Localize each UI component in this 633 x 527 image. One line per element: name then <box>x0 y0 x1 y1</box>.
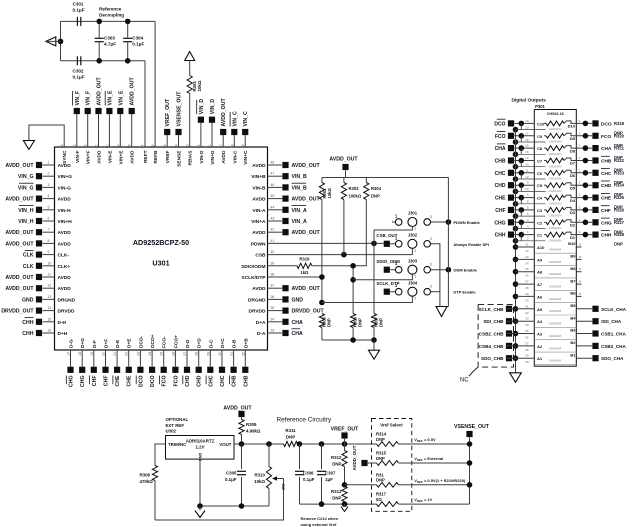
svg-text:C3: C3 <box>537 208 543 213</box>
svg-text:B5: B5 <box>570 303 576 308</box>
svg-text:VOUT: VOUT <box>219 442 232 447</box>
svg-text:C2: C2 <box>537 220 543 225</box>
svg-text:3: 3 <box>430 263 432 267</box>
wire pin 53 RBIAS <box>186 144 194 165</box>
svg-text:A7: A7 <box>537 282 543 287</box>
wire P301 row A2 <box>513 340 577 352</box>
wire P301 row A4 <box>513 315 577 327</box>
svg-text:40: 40 <box>271 250 275 254</box>
svg-text:B: B <box>579 280 581 284</box>
node DRVDD_OUT pin 35 <box>249 306 325 315</box>
svg-text:DNP: DNP <box>376 456 385 461</box>
node VIN_D pin 51 <box>208 99 216 165</box>
svg-text:57: 57 <box>141 144 145 148</box>
svg-text:CHC: CHC <box>601 171 612 177</box>
wire REFB drop <box>154 21 156 147</box>
svg-text:58: 58 <box>128 144 132 148</box>
svg-text:AVDD_OUT: AVDD_OUT <box>5 197 34 203</box>
svg-text:CHG: CHG <box>601 220 612 226</box>
svg-text:4.99kΩ: 4.99kΩ <box>246 429 261 434</box>
svg-text:0.1μF: 0.1μF <box>73 8 85 13</box>
svg-text:A3: A3 <box>537 332 543 337</box>
wire J302-2 elbow <box>411 249 413 255</box>
wire stub B6 <box>576 292 581 297</box>
svg-text:D+B: D+B <box>243 338 249 348</box>
svg-text:CHA: CHA <box>292 320 303 326</box>
svg-text:C303: C303 <box>104 36 115 41</box>
label R321 DNP <box>614 146 625 161</box>
node AVDD_OUT pin 50 <box>219 98 227 164</box>
svg-text:CHSAGN: CHSAGN <box>549 189 562 193</box>
svg-text:25: 25 <box>160 352 164 356</box>
svg-text:3: 3 <box>430 285 432 289</box>
svg-text:59: 59 <box>116 144 120 148</box>
svg-text:1.2V: 1.2V <box>195 445 204 450</box>
ground <box>341 504 348 511</box>
IC U301 AD9252BCPZ-50 <box>55 147 268 350</box>
svg-text:1kΩ: 1kΩ <box>300 270 309 275</box>
svg-text:100kΩ: 100kΩ <box>349 194 362 199</box>
svg-text:VIN_D: VIN_D <box>199 99 205 115</box>
label OPTIONAL EXT REF <box>166 417 189 428</box>
svg-text:VIN+E: VIN+E <box>118 150 124 165</box>
wire stub B10 <box>576 243 581 248</box>
wire J303-2 elbow <box>353 275 412 280</box>
node DCO- pin 23 <box>136 335 144 387</box>
wire column R304 elbow <box>353 200 366 266</box>
svg-text:VIN_E: VIN_E <box>107 90 113 106</box>
wire TRIM loop <box>155 444 166 466</box>
svg-text:54: 54 <box>175 144 179 148</box>
jumper J301 <box>392 211 432 231</box>
svg-text:55: 55 <box>163 144 167 148</box>
svg-text:36: 36 <box>271 295 275 299</box>
svg-text:CLK+: CLK+ <box>58 264 71 270</box>
svg-text:C6: C6 <box>537 171 543 176</box>
svg-text:C301: C301 <box>73 2 84 7</box>
svg-text:44: 44 <box>271 205 275 209</box>
wire pin 41 PDWN <box>251 239 275 248</box>
svg-text:R319: R319 <box>299 257 310 262</box>
node VREF_OUT pin 55 <box>163 98 171 163</box>
svg-text:CHSAGN: CHSAGN <box>549 127 562 131</box>
svg-text:GND: GND <box>292 297 304 303</box>
node CHF- pin 19 <box>90 340 98 386</box>
node AVDD_OUT pin 7 <box>5 228 71 237</box>
svg-text:D+D: D+D <box>197 338 203 348</box>
node CHE- pin 21 <box>113 339 121 387</box>
svg-text:AVDD: AVDD <box>58 230 72 236</box>
svg-text:2: 2 <box>414 227 416 231</box>
node SDO_CHB <box>481 355 515 361</box>
svg-text:38: 38 <box>271 273 275 277</box>
svg-text:21: 21 <box>525 243 529 247</box>
label VREF=External <box>414 456 443 462</box>
wire stub B9 <box>576 255 581 260</box>
svg-text:VIN+G: VIN+G <box>58 174 73 180</box>
svg-text:VIN_F: VIN_F <box>86 91 92 106</box>
svg-text:D+A: D+A <box>256 320 266 326</box>
svg-text:CHF: CHF <box>601 208 611 214</box>
svg-text:AVDD: AVDD <box>221 150 227 164</box>
svg-text:27: 27 <box>525 280 529 284</box>
svg-text:VIN_H: VIN_H <box>18 208 34 214</box>
svg-text:10: 10 <box>525 187 529 191</box>
svg-text:AVDD: AVDD <box>58 275 72 281</box>
node CHG- pin 17 <box>66 339 74 387</box>
svg-text:AVDD: AVDD <box>58 286 72 292</box>
svg-text:GNDAIM: GNDAIM <box>549 359 562 363</box>
svg-text:B: B <box>579 255 581 259</box>
svg-text:B: B <box>579 267 581 271</box>
svg-text:GNDAIM: GNDAIM <box>549 322 562 326</box>
node CLK pin 10 <box>23 261 71 270</box>
wire bottom rail <box>61 60 146 62</box>
svg-text:D9: D9 <box>570 136 576 141</box>
svg-text:FCO: FCO <box>162 376 168 387</box>
svg-text:B9: B9 <box>570 254 576 259</box>
svg-text:36: 36 <box>525 336 529 340</box>
label VREF=1V <box>414 497 432 503</box>
svg-text:R328: R328 <box>614 232 625 237</box>
label VREF=0.5V(1+R219/R220) <box>414 478 466 484</box>
svg-text:J301: J301 <box>408 211 418 216</box>
svg-text:10kΩ: 10kΩ <box>197 80 202 91</box>
wire column SDIO <box>350 263 356 314</box>
svg-text:VREF: VREF <box>165 150 171 163</box>
node VIN_E pin 59 <box>116 90 124 165</box>
svg-text:8: 8 <box>48 239 50 243</box>
svg-text:A6: A6 <box>537 294 543 299</box>
svg-text:DNP: DNP <box>376 437 385 442</box>
node VIN_C pin 48 <box>241 111 249 165</box>
svg-text:34: 34 <box>525 323 529 327</box>
svg-text:using external Vref: using external Vref <box>301 522 337 527</box>
label R328 DNP <box>614 232 625 247</box>
jumper J303 <box>376 258 431 278</box>
wire pin 56 REFB <box>151 144 159 163</box>
svg-text:A9: A9 <box>537 257 543 262</box>
svg-text:28: 28 <box>525 286 529 290</box>
svg-text:D1: D1 <box>570 235 576 240</box>
svg-text:VIN-B: VIN-B <box>252 185 266 191</box>
svg-text:DCO+: DCO+ <box>150 334 156 348</box>
node CHA- P301 row <box>495 144 546 158</box>
svg-text:D3: D3 <box>570 210 576 215</box>
node VIN_F pin 62 <box>84 91 92 164</box>
node VIN_H pin 6 <box>18 217 72 226</box>
node AVDD_OUT pin 48 <box>252 161 320 170</box>
svg-text:AVDD: AVDD <box>58 241 72 247</box>
svg-text:CSB1_CHA: CSB1_CHA <box>601 332 626 337</box>
svg-text:CHSAGN: CHSAGN <box>549 238 562 242</box>
wire SCLK row <box>268 276 322 278</box>
svg-text:CHE: CHE <box>127 375 133 386</box>
wire J301-2 elbow <box>374 227 412 230</box>
svg-text:AVDD_OUT: AVDD_OUT <box>292 163 321 169</box>
svg-text:D+E: D+E <box>127 338 133 348</box>
svg-text:37: 37 <box>271 284 275 288</box>
svg-text:2: 2 <box>48 172 50 176</box>
resistor R302 <box>319 178 332 200</box>
svg-text:GNDAIM: GNDAIM <box>549 297 562 301</box>
svg-text:C8: C8 <box>537 146 543 151</box>
svg-text:0.1μF: 0.1μF <box>73 75 85 80</box>
svg-text:DRVDD_OUT: DRVDD_OUT <box>1 309 34 315</box>
node AVDD_OUT pin 61 <box>95 77 103 164</box>
label R326 DNP <box>614 207 625 222</box>
svg-text:DTP Enable: DTP Enable <box>453 290 476 295</box>
svg-text:D+G: D+G <box>80 338 86 348</box>
node VIN_H pin 5 <box>18 205 71 214</box>
svg-text:17: 17 <box>525 131 529 135</box>
node VIN_D pin 52 <box>197 99 205 164</box>
node VSENSE_OUT <box>454 424 490 438</box>
svg-text:DNP: DNP <box>614 242 623 247</box>
capacitor C307 <box>317 444 336 504</box>
node CHD- out <box>576 181 612 190</box>
node DCO+ out <box>576 119 612 128</box>
node VIN_C pin 49 <box>230 111 238 164</box>
jumper J302 <box>376 233 431 253</box>
svg-text:VIN_H: VIN_H <box>18 219 34 225</box>
svg-text:DNP: DNP <box>376 478 385 483</box>
node VIN_G pin 3 <box>18 183 71 192</box>
svg-text:C302: C302 <box>73 69 84 74</box>
wire P301 row A8 <box>513 266 577 278</box>
svg-text:31: 31 <box>525 304 529 308</box>
node SCLK_CHA <box>576 306 626 312</box>
svg-text:R313: R313 <box>331 489 342 494</box>
node CHA pin 34 <box>256 317 303 326</box>
svg-text:B2: B2 <box>570 340 576 345</box>
svg-text:R311: R311 <box>285 428 296 433</box>
svg-text:SDI_CHA: SDI_CHA <box>601 319 622 324</box>
wire pin 40 CSB <box>255 250 274 259</box>
svg-text:PDWN: PDWN <box>251 241 266 247</box>
svg-text:4: 4 <box>48 194 50 198</box>
resistor R303 <box>341 178 362 200</box>
svg-text:DNP: DNP <box>371 194 380 199</box>
svg-text:22: 22 <box>525 249 529 253</box>
node AVDD_OUT <box>223 406 252 420</box>
wire enable rail <box>437 178 449 307</box>
svg-text:B1: B1 <box>570 352 576 357</box>
node AVDD_OUT pin 11 <box>5 273 71 282</box>
svg-text:33: 33 <box>525 317 529 321</box>
node VSENSE_OUT pin 54 <box>175 91 183 167</box>
node AVDD_OUT pin 58 <box>128 77 136 164</box>
resistor R304 <box>364 178 382 200</box>
svg-text:45: 45 <box>271 194 275 198</box>
svg-text:SDI_CHB: SDI_CHB <box>483 319 504 324</box>
svg-text:R312: R312 <box>331 455 342 460</box>
node CHF+ pin 20 <box>102 339 110 386</box>
node CLK pin 9 <box>23 250 70 259</box>
svg-text:51: 51 <box>208 144 212 148</box>
wire VSENSE rail <box>412 438 473 505</box>
svg-text:15: 15 <box>48 317 52 321</box>
svg-text:DRVDD: DRVDD <box>58 309 76 315</box>
svg-text:39: 39 <box>271 261 275 265</box>
wire PDWN row <box>268 241 384 247</box>
wire P301 row A10 <box>513 241 577 253</box>
svg-text:CHG: CHG <box>69 376 75 388</box>
resistor R327 (DNP) <box>537 220 576 230</box>
node CHE+ P301 row <box>495 193 546 207</box>
svg-text:31: 31 <box>230 352 234 356</box>
svg-text:R303: R303 <box>349 186 360 191</box>
svg-text:SCLK/DTP: SCLK/DTP <box>242 275 267 281</box>
wire VOUT row <box>234 441 284 447</box>
svg-text:CHB: CHB <box>243 375 249 386</box>
node CHE- out <box>576 193 612 202</box>
svg-text:37: 37 <box>525 341 529 345</box>
svg-text:D6: D6 <box>570 173 576 178</box>
svg-text:NC: NC <box>460 378 469 384</box>
svg-text:R321: R321 <box>614 146 625 151</box>
ground <box>195 506 205 518</box>
svg-text:AVDD: AVDD <box>252 163 266 169</box>
svg-text:25: 25 <box>525 267 529 271</box>
capacitor C304 <box>123 19 144 64</box>
svg-text:CHSAGN: CHSAGN <box>549 226 562 230</box>
ground <box>369 350 380 359</box>
resistor R325 (DNP) <box>537 195 576 205</box>
node CSB2_CHA <box>576 343 626 349</box>
capacitor C303 <box>95 19 116 64</box>
svg-text:VIN-H: VIN-H <box>58 208 72 214</box>
svg-text:VIN+H: VIN+H <box>58 219 73 225</box>
node CHE+ pin 22 <box>125 338 133 387</box>
svg-text:17: 17 <box>67 352 71 356</box>
svg-text:CSB2_CHA: CSB2_CHA <box>601 344 626 349</box>
svg-text:D2: D2 <box>570 223 576 228</box>
wire J304-3 <box>431 291 440 293</box>
capacitor C301 <box>73 2 85 26</box>
capacitor C302 <box>73 56 85 79</box>
resistor R317 <box>372 492 412 507</box>
resistor R309 <box>239 420 261 445</box>
svg-text:TRIM/NC: TRIM/NC <box>168 442 187 447</box>
svg-text:R327: R327 <box>614 220 625 225</box>
svg-text:13: 13 <box>525 156 529 160</box>
svg-text:21: 21 <box>113 352 117 356</box>
Vref Select box <box>372 419 412 512</box>
svg-text:B3: B3 <box>570 328 576 333</box>
svg-text:D+C: D+C <box>220 338 226 348</box>
svg-text:B: B <box>579 243 581 247</box>
svg-text:AVDD_OUT: AVDD_OUT <box>223 406 252 412</box>
svg-text:SCLK_CHB: SCLK_CHB <box>478 307 504 312</box>
svg-text:SDO_CHA: SDO_CHA <box>601 356 624 361</box>
node FCO+ pin 26 <box>171 335 179 387</box>
svg-text:DRVDD_OUT: DRVDD_OUT <box>292 309 325 315</box>
ground <box>510 373 522 383</box>
resistor R312 <box>331 444 347 485</box>
resistor R328 (DNP) <box>537 232 576 242</box>
svg-text:14: 14 <box>525 163 529 167</box>
svg-text:24: 24 <box>525 261 529 265</box>
svg-text:FCO: FCO <box>601 134 611 140</box>
node CHG+ P301 row <box>494 218 545 232</box>
svg-text:SCLK_CHA: SCLK_CHA <box>601 307 627 312</box>
svg-text:D-C: D-C <box>208 339 214 348</box>
svg-text:VIN_A: VIN_A <box>292 219 308 225</box>
svg-text:32: 32 <box>525 311 529 315</box>
svg-text:B8: B8 <box>570 266 576 271</box>
svg-text:C304: C304 <box>132 36 143 41</box>
svg-text:C10: C10 <box>537 121 545 126</box>
svg-text:26: 26 <box>171 352 175 356</box>
wire pin 38 SCLK/DTP <box>242 273 275 282</box>
svg-text:30: 30 <box>525 298 529 302</box>
svg-text:3: 3 <box>48 183 50 187</box>
svg-text:J303: J303 <box>408 258 418 263</box>
svg-text:CHC: CHC <box>208 375 214 386</box>
wire J302-3 <box>431 244 440 307</box>
resistor R319 <box>268 257 354 275</box>
svg-text:AVDD_OUT: AVDD_OUT <box>329 157 358 163</box>
svg-text:CHSAGN: CHSAGN <box>549 140 562 144</box>
svg-text:43: 43 <box>271 217 275 221</box>
svg-text:AVDD: AVDD <box>97 150 103 164</box>
svg-text:FCO: FCO <box>495 134 506 140</box>
node CHA+ out <box>576 144 612 153</box>
svg-text:C1: C1 <box>537 233 543 238</box>
label PDWN Enable <box>453 220 480 225</box>
svg-text:CHC: CHC <box>495 171 506 177</box>
node SDO_CHA <box>576 355 624 361</box>
svg-text:14: 14 <box>48 306 52 310</box>
svg-text:ADR510ARTZ: ADR510ARTZ <box>186 439 215 444</box>
svg-text:AVDD_OUT: AVDD_OUT <box>5 241 34 247</box>
svg-text:R322: R322 <box>614 158 625 163</box>
wire P301 row A6 <box>513 291 577 303</box>
svg-text:R326: R326 <box>614 207 625 212</box>
node AVDD_OUT pin 42 <box>252 228 320 237</box>
svg-text:41: 41 <box>271 239 275 243</box>
svg-text:R315: R315 <box>376 451 387 456</box>
wire AVDD bus <box>322 177 449 179</box>
resistor R31 <box>372 472 412 487</box>
node CHH pin 15 <box>22 317 66 326</box>
node FCO- pin 25 <box>160 336 168 387</box>
svg-text:U301: U301 <box>152 259 169 268</box>
svg-text:CHD: CHD <box>495 183 506 189</box>
svg-text:CHF: CHF <box>495 208 505 214</box>
svg-text:47: 47 <box>271 172 275 176</box>
svg-text:46: 46 <box>271 183 275 187</box>
wire pulldown rail <box>322 337 377 350</box>
wire J304-2 elbow <box>322 297 413 303</box>
resistor R305 <box>319 314 331 341</box>
label R324 DNP <box>614 183 625 198</box>
svg-text:1μF: 1μF <box>325 477 333 482</box>
node CHG- out <box>576 218 612 227</box>
node SDI_CHA <box>576 318 622 324</box>
svg-text:5: 5 <box>48 205 50 209</box>
svg-text:VIN+D: VIN+D <box>210 150 216 165</box>
node CHB+ P301 row <box>495 156 546 170</box>
svg-text:REFT: REFT <box>143 150 149 163</box>
svg-text:A4: A4 <box>537 319 543 324</box>
svg-text:23: 23 <box>525 255 529 259</box>
svg-text:2: 2 <box>414 275 416 279</box>
wire U302 GND <box>199 459 201 506</box>
label Always Enable SPI <box>453 242 489 247</box>
svg-text:48: 48 <box>241 144 245 148</box>
